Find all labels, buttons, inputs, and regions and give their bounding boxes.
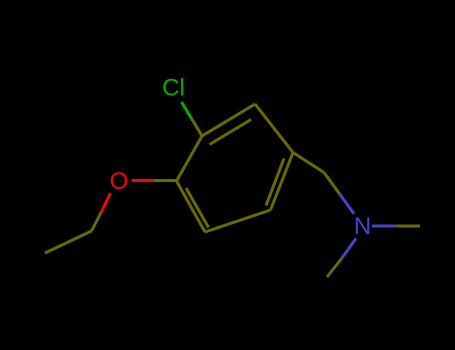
bond C1 to N, carbon half olive: [324, 173, 340, 195]
wire: benzene edge L-A: [177, 136, 203, 181]
wire: inner double bond line E-L: [186, 188, 209, 228]
bond A to Cl, chlorine half green: [182, 102, 192, 119]
wire: benzene edge E-L: [177, 181, 206, 232]
bond L to O, oxygen half red: [132, 179, 155, 182]
wire: benzene edge D-E: [205, 210, 271, 232]
bond N to right methyl, carbon half olive: [396, 225, 420, 228]
bond N to lower-left methyl, nitrogen half blue: [342, 239, 356, 259]
bond O to CH2, oxygen half red: [101, 193, 111, 213]
bond N to lower-left methyl, carbon half olive: [327, 258, 342, 277]
wire: inner double bond line C-D: [266, 159, 284, 206]
bond O to CH2, carbon half olive: [92, 213, 102, 232]
bond C1 to N, nitrogen half blue: [340, 195, 354, 214]
bond A to Cl, ring half olive: [192, 119, 202, 136]
wire: benzene edge B-C: [255, 104, 293, 153]
wire: benzene edge C-D: [271, 153, 294, 211]
svg-text:N: N: [354, 213, 371, 240]
wire: benzene edge A-B: [202, 104, 255, 136]
bond C to benzylic C1: [293, 153, 324, 173]
bond CH2 to CH3 of ethyl: [45, 231, 92, 253]
svg-text:Cl: Cl: [162, 75, 185, 102]
bond L to O, ring half olive: [154, 179, 177, 182]
svg-text:O: O: [110, 168, 129, 195]
wire: inner double bond line A-B: [210, 120, 252, 145]
bond N to right methyl, nitrogen half blue: [372, 225, 396, 228]
